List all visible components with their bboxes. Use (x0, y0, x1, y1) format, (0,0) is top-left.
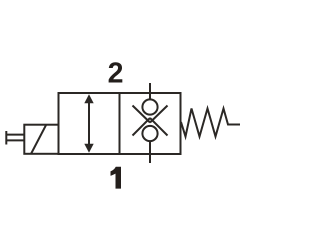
svg-text:2: 2 (108, 57, 124, 89)
port label 1 (111, 167, 122, 189)
solenoid diagonal (31, 125, 46, 154)
return spring (181, 109, 240, 137)
check valve ball top (142, 99, 157, 114)
electrical terminal bar (5, 131, 7, 145)
check valve seat top (V) (133, 106, 168, 123)
valve body right position box (120, 93, 181, 154)
valve body left position box (59, 93, 120, 154)
port 2 line (top) (149, 83, 151, 100)
port 1 line (bottom) (149, 141, 151, 163)
check valve ball bottom (142, 126, 157, 141)
double-headed arrow in left box (84, 94, 93, 152)
electrical lead lower (6, 139, 24, 141)
electrical lead upper (6, 134, 24, 136)
check valve seat bottom (inverted V) (133, 118, 168, 136)
solenoid box (24, 125, 58, 154)
